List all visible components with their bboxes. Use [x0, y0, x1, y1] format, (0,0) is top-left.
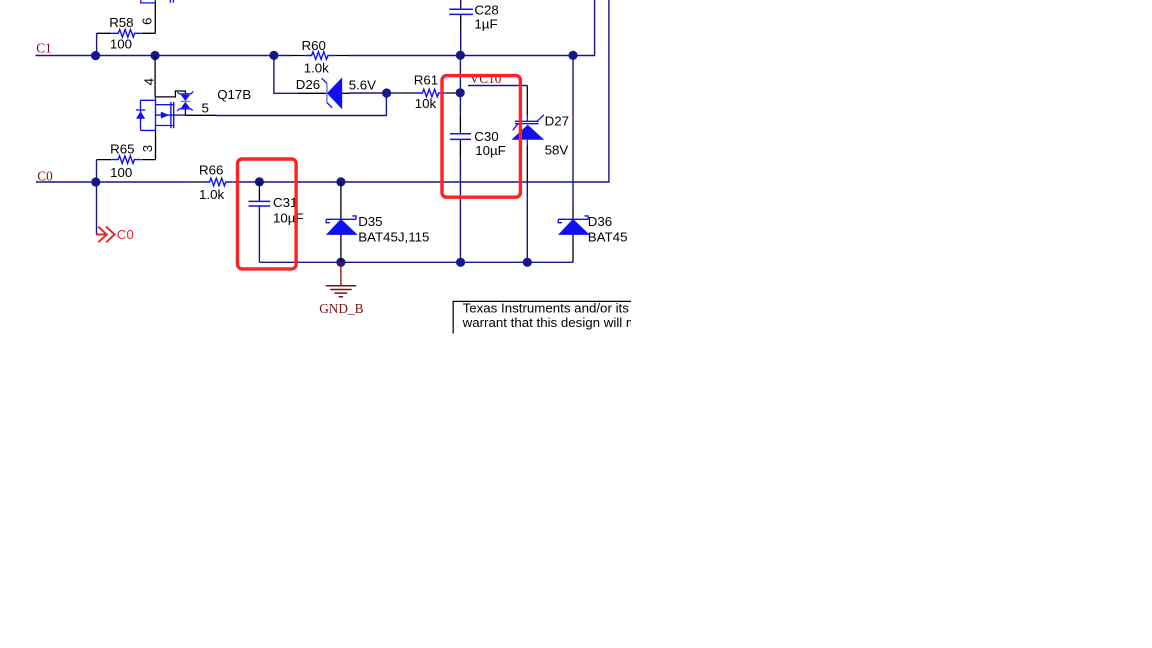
- svg-text:R65: R65: [110, 141, 134, 156]
- pin number 3: [140, 145, 155, 152]
- svg-text:100: 100: [110, 37, 132, 52]
- wire C1 bus: [36, 0, 595, 56]
- wire C0 bus: [36, 0, 609, 182]
- wire R65 right to Q17B pin3: [155, 130, 157, 159]
- svg-text:1.0k: 1.0k: [199, 187, 224, 202]
- capacitor C28: [449, 0, 499, 55]
- junction C0-C31: [255, 177, 264, 186]
- pin number 6: [140, 17, 155, 24]
- net label C0: [37, 169, 53, 184]
- ground GND_B: [319, 262, 363, 316]
- svg-text:VC10: VC10: [470, 71, 502, 86]
- svg-text:warrant that this design will: warrant that this design will m: [462, 315, 637, 330]
- junction D26-R61-pin5: [382, 88, 391, 97]
- svg-text:BAT45: BAT45: [588, 229, 628, 244]
- svg-text:C0: C0: [37, 169, 53, 184]
- junction C0-D35: [336, 177, 345, 186]
- net label VC10: [470, 71, 502, 86]
- junction bottom-C30: [456, 258, 465, 267]
- wire bottom bus: [259, 261, 573, 263]
- junction C1-R58: [91, 51, 100, 60]
- capacitor C31: [249, 182, 304, 262]
- svg-text:1µF: 1µF: [474, 17, 497, 32]
- wire C0 port drop: [96, 182, 98, 235]
- svg-text:58V: 58V: [545, 143, 569, 158]
- wire D36 drop: [572, 55, 574, 219]
- port C0: [97, 227, 134, 243]
- wire C1 bus to D26: [274, 55, 298, 93]
- cut-off component fragment top-left: [141, 0, 156, 3]
- svg-text:C28: C28: [474, 2, 498, 17]
- wire pin5 to D26 node: [185, 93, 386, 116]
- junction R61-VC10: [456, 88, 465, 97]
- transistor Q17B: [136, 87, 251, 131]
- zener D26: [296, 77, 376, 109]
- wire D26 to node: [350, 92, 386, 94]
- resistor R65: [97, 141, 156, 179]
- svg-text:D35: D35: [358, 214, 382, 229]
- wire VC10 net vertical: [459, 55, 461, 115]
- wire R58 left drop to C1 bus: [96, 33, 98, 55]
- junction C1-C28: [456, 51, 465, 60]
- cut-off capacitor fragment top: [170, 0, 173, 3]
- zener D27: [511, 114, 569, 158]
- svg-text:Texas Instruments and/or its: Texas Instruments and/or its: [463, 301, 630, 316]
- resistor R58: [97, 15, 156, 52]
- svg-text:C0: C0: [117, 227, 134, 242]
- svg-text:4: 4: [142, 78, 157, 85]
- svg-text:5.6V: 5.6V: [349, 78, 376, 93]
- svg-text:GND_B: GND_B: [319, 301, 363, 316]
- junction C1-D36: [568, 51, 577, 60]
- wire VC10 stub to D27: [468, 86, 527, 116]
- highlight box C30: [442, 76, 520, 198]
- diode D35: [326, 182, 430, 262]
- svg-text:1.0k: 1.0k: [304, 61, 329, 76]
- svg-text:C30: C30: [474, 129, 498, 144]
- svg-text:R60: R60: [302, 38, 326, 53]
- diode D36: [558, 214, 627, 262]
- resistor R66: [190, 162, 236, 202]
- wire pin6 vertical: [154, 3, 156, 33]
- svg-text:BAT45J,115: BAT45J,115: [358, 229, 429, 244]
- svg-text:3: 3: [140, 145, 155, 152]
- svg-text:5: 5: [202, 101, 209, 116]
- wire R65 left drop to C0 bus: [96, 160, 98, 182]
- svg-text:Q17B: Q17B: [217, 87, 251, 102]
- svg-text:D36: D36: [588, 214, 612, 229]
- junction C1-D26: [269, 51, 278, 60]
- svg-text:C31: C31: [273, 195, 297, 210]
- resistor R61: [402, 73, 456, 112]
- svg-text:10µF: 10µF: [475, 143, 506, 158]
- svg-text:10µF: 10µF: [273, 210, 304, 225]
- svg-text:6: 6: [140, 17, 155, 24]
- svg-text:R61: R61: [414, 73, 438, 88]
- svg-text:10k: 10k: [415, 96, 437, 111]
- junction bottom-D27: [523, 258, 532, 267]
- net label C1: [36, 40, 52, 55]
- svg-text:R58: R58: [109, 15, 133, 30]
- junction C0-R65: [91, 177, 100, 186]
- resistor R60: [290, 38, 350, 76]
- svg-text:C1: C1: [36, 40, 52, 55]
- svg-text:100: 100: [110, 165, 132, 180]
- pin number 5: [202, 101, 209, 116]
- svg-text:R66: R66: [199, 162, 223, 177]
- wire pin4 vertical: [154, 56, 156, 97]
- svg-text:D27: D27: [545, 114, 569, 129]
- note box Texas Instruments: [453, 301, 637, 334]
- junction C1-pin4: [151, 51, 160, 60]
- wire node to R61: [387, 92, 402, 94]
- capacitor C30: [450, 115, 506, 262]
- highlight box C31: [238, 159, 297, 269]
- svg-text:D26: D26: [296, 77, 320, 92]
- pin number 4: [142, 78, 157, 85]
- wire D27 anode down: [526, 146, 528, 263]
- junction bottom-D35: [336, 258, 345, 267]
